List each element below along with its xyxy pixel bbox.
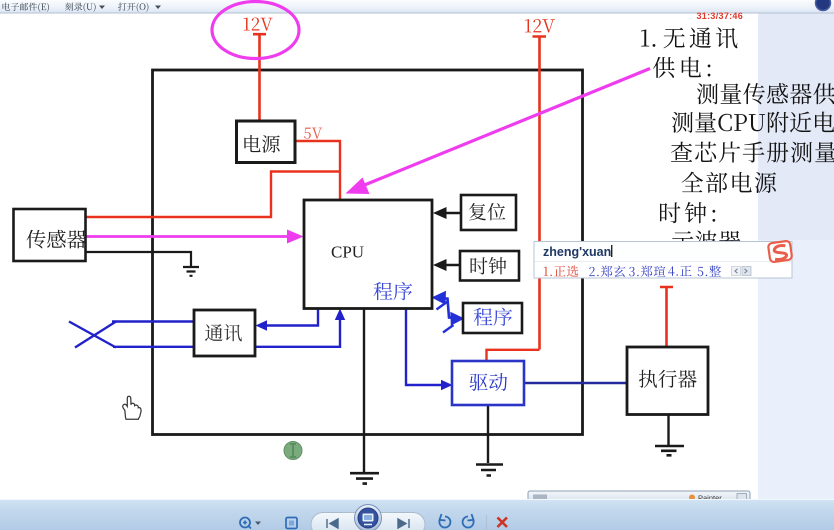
ground symbol (CPU) [350, 473, 379, 483]
svg-text:CPU: CPU [331, 243, 364, 262]
ground symbol (sensor) [183, 267, 199, 276]
label 程序 (blue) [474, 308, 512, 326]
box 复位 (reset) [461, 195, 516, 230]
mouse hand cursor [123, 396, 141, 419]
12V supply stub with T cap (right) [533, 37, 547, 350]
wire: 驱动 to 执行器 (navy) [524, 382, 627, 385]
wire: twisted pair X crossover left [69, 322, 116, 348]
box 电源 (power supply) [237, 121, 296, 163]
label 执行器 [639, 370, 697, 388]
wire+arrow: 复位 to CPU [441, 212, 461, 214]
rotate ccw [439, 514, 450, 527]
top-right navy circle icon [816, 0, 831, 11]
box 驱动 (driver, blue) [452, 361, 524, 405]
arrowhead left into 通讯 [256, 320, 268, 330]
12V supply stub with T cap (left) [253, 34, 266, 120]
svg-text:31:3/37:46: 31:3/37:46 [697, 11, 744, 21]
delete X [498, 518, 508, 528]
box 程序 (program) [463, 303, 522, 333]
menu item 刻录(U) [65, 2, 96, 11]
ground symbol (驱动) [476, 465, 503, 476]
note line 7: 时钟: (clock) [660, 202, 715, 223]
wire: 12V down to 驱动 top [487, 350, 540, 361]
box 执行器 (actuator) [627, 347, 708, 415]
label 通讯 [205, 324, 242, 341]
ground symbol (执行器) [655, 446, 684, 455]
wire: comm line upper into 通讯 [112, 320, 194, 322]
label 12V (right) [525, 19, 555, 33]
IME window (Sogou pinyin) [534, 242, 792, 279]
zoom magnifier button [240, 518, 250, 528]
nav pill [311, 513, 425, 530]
arrowhead up into CPU bottom [335, 309, 345, 321]
svg-text:zheng'xuan: zheng'xuan [543, 245, 611, 259]
green pen cursor dot [284, 442, 302, 460]
Sogou logo S [768, 241, 792, 263]
box 传感器 (sensor) [14, 209, 86, 261]
note line 1: 无通讯 (no communication) [664, 27, 738, 48]
magenta arrow: sensor to CPU [86, 235, 292, 238]
IME candidate 3.郑瑄 [629, 265, 665, 277]
magenta diagonal arrow: from 供电 note to CPU power entry [356, 69, 650, 189]
magenta ellipse circling 12V [212, 2, 299, 59]
center slideshow button [355, 505, 382, 530]
wire: 驱动 bottom to ground [487, 405, 489, 463]
note line 6: 全部电源 [682, 172, 777, 193]
wire: CPU bottom to ground [363, 309, 365, 473]
note line 8: 示波器 (oscilloscope) [672, 231, 741, 252]
label 驱动 (blue) [470, 373, 508, 391]
label 12V (left) [244, 17, 273, 30]
rotate cw [463, 514, 474, 527]
IME candidate 4.正 [668, 265, 691, 276]
IME pager buttons [732, 267, 741, 276]
note line 5: 查芯片手册测量 [671, 141, 834, 162]
wire: 执行器 bottom to ground [667, 415, 669, 446]
IME candidate 2.郑玄 [589, 265, 625, 277]
IME candidate 1.正选 (red) [544, 266, 579, 277]
IME candidate 5.整 [698, 265, 721, 276]
label 5V [304, 128, 322, 139]
note line 1 numeral [641, 30, 655, 47]
note line 3: 测量传感器供 [697, 83, 834, 104]
wire: CPU bottom down to 驱动 with right arrow [406, 309, 446, 386]
label 电源 [244, 135, 279, 153]
wire: 电源 output 5V to CPU top [295, 141, 340, 200]
box CPU [304, 200, 432, 309]
menu item 电子邮件(E) [3, 3, 49, 13]
label 传感器 [27, 230, 87, 249]
viewer background strip right of photo [758, 0, 834, 530]
label 复位 [469, 203, 505, 220]
box 通讯 (communication) [194, 310, 255, 356]
bottom photo viewer control bar [0, 499, 834, 530]
menu bar background [0, 0, 834, 13]
menu item 打开(O) [118, 2, 148, 11]
wire: sensor to ground [86, 252, 191, 266]
label 时钟 [471, 257, 507, 275]
zigzag double arrow CPU to 程序 box [436, 298, 459, 318]
label 程序 inside CPU (blue) [374, 282, 413, 300]
partial window titlebar (Painter) [528, 491, 750, 504]
actual size button [286, 518, 297, 529]
wire+arrow: 时钟 to CPU [441, 264, 460, 266]
wire: CPU bottom to 通讯 right with left arrow [262, 309, 318, 326]
note line 4: 测量CPU附近电容 [672, 112, 834, 133]
wire: comm line lower to CPU with up arrow [113, 312, 340, 347]
note line 2: 供电: (power supply) [653, 57, 710, 78]
box 时钟 (clock) [460, 251, 519, 281]
outer system boundary rectangle [153, 70, 583, 435]
wire: 5V branch to sensor [86, 172, 340, 218]
arrowhead right into 驱动 [441, 380, 453, 390]
12V supply stub with T cap (for 执行器) [660, 287, 673, 347]
